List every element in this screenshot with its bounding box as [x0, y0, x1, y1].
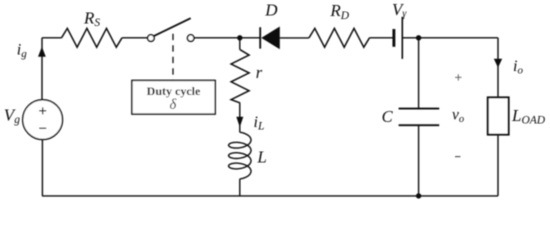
svg-text:D: D: [264, 0, 278, 19]
svg-text:C: C: [382, 107, 394, 126]
svg-text:L: L: [256, 147, 266, 166]
svg-text:Duty cycle: Duty cycle: [147, 84, 201, 98]
svg-text:δ: δ: [170, 97, 177, 113]
svg-text:r: r: [256, 63, 263, 82]
